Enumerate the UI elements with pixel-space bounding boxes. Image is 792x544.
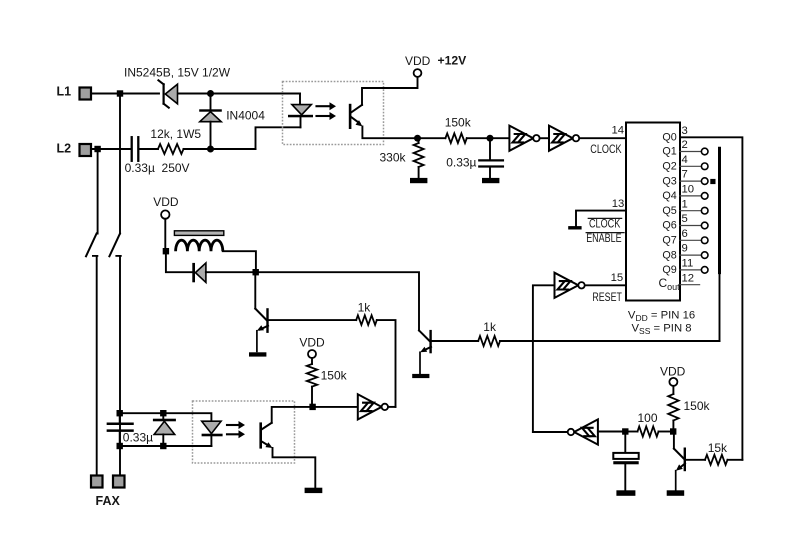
wire node G to U3E: [598, 431, 622, 433]
svg-text:Q8: Q8: [662, 249, 676, 261]
terminal VDD right: [669, 378, 677, 386]
wire LED U4 return: [123, 445, 211, 447]
terminal L1: [80, 88, 92, 100]
label R9 15k: [708, 441, 728, 455]
pin Q5 (pin 1) stub: [662, 198, 708, 217]
optocoupler U2 box: [283, 82, 384, 145]
node zener-IN4004 junction: [207, 90, 214, 97]
wire S2 to FAX terminal: [119, 256, 121, 476]
svg-text:0.33µ: 0.33µ: [123, 430, 153, 444]
node inductor-left junction: [163, 248, 169, 254]
svg-text:13: 13: [612, 198, 625, 210]
terminal L2: [80, 144, 92, 156]
pin Q8 (pin 9) stub: [662, 243, 708, 262]
svg-text:RESET: RESET: [592, 291, 622, 305]
inductor L1 coil: [176, 240, 223, 251]
wire R7 left: [629, 431, 638, 433]
svg-text:Q2: Q2: [662, 161, 676, 173]
pin Q9 (pin 11) stub: [662, 258, 708, 277]
svg-text:CLOCK: CLOCK: [590, 143, 622, 157]
svg-text:1: 1: [682, 198, 688, 210]
node B junction: [487, 135, 494, 142]
wire D3 to node C: [206, 271, 253, 273]
svg-text:2: 2: [682, 139, 688, 151]
wire Q0 output: [680, 137, 742, 460]
svg-text:Q0: Q0: [662, 132, 676, 144]
svg-text:CLOCK: CLOCK: [589, 217, 621, 231]
label L2: [57, 142, 72, 156]
label L1: [57, 85, 72, 99]
label C2 value: [446, 156, 476, 170]
terminal VDD top: [414, 69, 422, 77]
label R3 150k: [445, 115, 472, 129]
node E junction top: [117, 410, 123, 416]
LED U4: [202, 421, 223, 446]
optocoupler U4 box: [193, 401, 295, 463]
terminal VDD middle: [308, 350, 316, 358]
switch S1 blade: [86, 234, 97, 257]
svg-text:FAX: FAX: [96, 494, 121, 508]
wire R3 to inverter: [467, 137, 510, 139]
svg-text:1k: 1k: [358, 300, 372, 314]
resistor R5 1k: [478, 336, 500, 346]
label VDD right: [660, 365, 686, 379]
svg-text:5: 5: [682, 213, 688, 225]
svg-text:100: 100: [638, 411, 658, 425]
label C3 value: [123, 430, 153, 444]
svg-text:12k, 1W5: 12k, 1W5: [150, 127, 201, 141]
terminal FAX-1: [91, 476, 103, 488]
wire U3C to pin 15: [585, 284, 626, 286]
wire U2 emitter to node A: [362, 126, 445, 138]
wire R7 to node H: [659, 431, 671, 433]
svg-text:12: 12: [682, 272, 695, 284]
node L1 junction: [117, 90, 123, 96]
label pin 14: [612, 124, 625, 136]
label R2 330k: [380, 151, 407, 165]
svg-text:11: 11: [682, 258, 694, 270]
jumper mark at Q3: [710, 179, 715, 184]
label R5 1k: [483, 320, 497, 334]
ground tick pin 13: [568, 226, 581, 229]
label pin 13: [612, 198, 625, 210]
label ENABLE(bar): [586, 232, 624, 246]
diode D4 protection: [153, 413, 176, 446]
U2 coupling arrows: [317, 102, 337, 120]
node L2 junction: [94, 146, 100, 152]
svg-text:4: 4: [682, 154, 688, 166]
svg-text:10: 10: [682, 184, 695, 196]
resistor R1 12k 1W5: [158, 144, 184, 154]
svg-text:9: 9: [682, 243, 688, 255]
pin Q0 (pin 3) label: [662, 125, 687, 144]
label CLOCK(bar): [588, 217, 621, 231]
wire pin 13 to ground: [576, 211, 626, 227]
resistor R4 1k: [356, 315, 377, 325]
svg-text:15: 15: [611, 272, 624, 284]
wire L2 rail: [91, 148, 130, 150]
terminal VDD inductor: [161, 210, 169, 218]
pin Q1 (pin 2) stub: [662, 139, 708, 158]
wire U3A to U3B: [540, 137, 549, 139]
capacitor C2 0.33u: [479, 138, 503, 178]
label VDD inductor: [153, 195, 179, 209]
diode D3 freewheel: [192, 263, 206, 283]
ground below Q1: [249, 352, 266, 356]
ground below Q2: [412, 374, 429, 378]
LED U2 anode wire: [299, 94, 301, 105]
label CLOCK pin: [590, 143, 622, 157]
wire R1 to corner: [184, 148, 256, 150]
label RESET pin: [592, 291, 622, 305]
IC U1 CD4017 box: [626, 123, 680, 301]
wire U3D output: [389, 406, 396, 408]
node C junction: [253, 269, 259, 275]
label R1 value: [150, 127, 201, 141]
svg-text:Q6: Q6: [662, 220, 676, 232]
svg-text:1k: 1k: [483, 320, 497, 334]
node D4 bottom junction: [160, 443, 166, 449]
wire L1 drop to switch: [119, 94, 121, 234]
node F junction bottom: [117, 443, 123, 449]
ground below Q3: [667, 490, 685, 496]
pin Q4 (pin 10) stub: [662, 184, 708, 203]
wire L1 rail: [91, 93, 159, 95]
wire R5 to tap bus: [500, 340, 720, 342]
node H junction: [670, 428, 676, 434]
svg-text:14: 14: [612, 124, 625, 136]
inverter U3C reset: [555, 273, 585, 298]
svg-text:330k: 330k: [380, 151, 407, 165]
label VDD top: [405, 54, 431, 68]
resistor R8 150k: [668, 386, 678, 428]
svg-text:0.33µ 250V: 0.33µ 250V: [125, 161, 190, 175]
svg-text:VDD: VDD: [405, 54, 431, 68]
node A junction: [414, 135, 421, 142]
wire C1 to R1: [140, 148, 159, 150]
ground below C2: [482, 178, 499, 183]
wire zener to opto: [178, 93, 300, 95]
resistor R9 15k: [705, 455, 728, 465]
svg-text:IN5245B, 15V 1/2W: IN5245B, 15V 1/2W: [124, 66, 231, 80]
wire corner up to opto LED cathode: [256, 127, 301, 149]
pin Q2 (pin 4) stub: [662, 154, 708, 173]
label VDD = PIN 16: [628, 309, 695, 323]
svg-text:15k: 15k: [708, 441, 728, 455]
label C1 value: [125, 161, 190, 175]
phototransistor U2: [349, 104, 363, 129]
svg-text:Q3: Q3: [662, 175, 676, 187]
svg-text:VDD: VDD: [153, 195, 179, 209]
svg-text:IN4004: IN4004: [226, 108, 265, 122]
svg-text:150k: 150k: [321, 368, 348, 382]
svg-text:6: 6: [682, 228, 688, 240]
svg-text:Q7: Q7: [662, 235, 676, 247]
wire U3E input: [598, 431, 600, 433]
label R4 1k: [358, 300, 372, 314]
wire node C to Q2 base rail: [259, 272, 419, 330]
wire coil to corner: [223, 251, 256, 269]
resistor R3 150k: [445, 133, 466, 143]
label IN4004: [226, 108, 265, 122]
svg-text:7: 7: [682, 169, 688, 181]
label R8 150k: [684, 399, 711, 413]
svg-text:Q1: Q1: [662, 146, 676, 158]
resistor R2 330k: [414, 138, 424, 178]
label zener value: [124, 66, 231, 80]
wire L2 drop to switch: [97, 149, 99, 234]
LED U2: [288, 105, 313, 128]
capacitor C3 0.33u: [108, 416, 133, 442]
terminal FAX-2: [113, 476, 125, 488]
wire U3E output to reset line: [533, 431, 567, 433]
svg-text:L2: L2: [57, 142, 72, 156]
wire U2 collector to VDD tap: [362, 77, 418, 105]
label R6 150k: [321, 368, 348, 382]
svg-text:150k: 150k: [445, 115, 472, 129]
label VSS = PIN 8: [632, 323, 692, 337]
inverter U3B: [549, 126, 579, 151]
wire junction down to diode: [166, 251, 192, 272]
inverter U3E: [568, 419, 598, 444]
pin Q3 (pin 7) stub: [662, 169, 708, 188]
wire U4 collector to node D: [272, 407, 310, 423]
wire S1 to FAX terminal: [96, 256, 98, 476]
diode D2 IN4004: [199, 94, 222, 146]
tap bus bar: [500, 148, 720, 341]
label pin 15: [611, 272, 624, 284]
U4 coupling arrows: [227, 421, 245, 438]
node D junction: [309, 404, 315, 410]
svg-text:Q4: Q4: [662, 190, 676, 202]
pin Q6 (pin 5) stub: [662, 213, 708, 232]
svg-text:0.33µ: 0.33µ: [446, 156, 476, 170]
svg-text:ENABLE: ENABLE: [586, 232, 621, 246]
wire VDD to L1 node: [164, 219, 166, 248]
wire U3B to pin 14: [579, 137, 626, 139]
wire node C down to Q1 base: [254, 275, 256, 308]
phototransistor U4: [259, 422, 272, 448]
svg-text:3: 3: [682, 125, 688, 137]
pin Cout (pin 12) stub: [659, 272, 700, 291]
svg-text:+12V: +12V: [438, 53, 468, 67]
label FAX: [96, 494, 121, 508]
capacitor C4: [613, 435, 638, 491]
resistor R6 150k: [307, 358, 317, 404]
ground below C4: [616, 490, 635, 496]
svg-text:L1: L1: [57, 85, 72, 99]
transistor Q1: [255, 308, 356, 351]
ground below U4: [305, 488, 323, 493]
label R7 100: [638, 411, 658, 425]
wire FAX rail to LED U4: [123, 413, 211, 421]
svg-text:Q5: Q5: [662, 205, 676, 217]
switch S2 blade: [109, 234, 120, 257]
label +12V: [438, 53, 468, 67]
node D4 top junction: [160, 410, 166, 416]
zener D1 IN5245B: [158, 80, 177, 107]
pin Q7 (pin 6) stub: [662, 228, 708, 247]
inverter U3D: [358, 394, 388, 419]
inductor core: [174, 231, 223, 236]
transistor Q3: [674, 435, 705, 491]
svg-text:VDD: VDD: [660, 365, 686, 379]
ground below R2: [410, 178, 427, 183]
wire reset inverter input: [533, 285, 555, 432]
node G junction: [622, 428, 628, 434]
resistor R7 100: [638, 427, 659, 437]
node L2-IN4004 junction: [207, 146, 214, 153]
label VDD middle: [299, 336, 325, 350]
capacitor C1 0.33u 250V: [132, 137, 139, 161]
wire U4 emitter to ground: [273, 448, 316, 488]
wire R4 to inverter output: [377, 320, 396, 407]
svg-text:Q9: Q9: [662, 264, 676, 276]
inverter U3A: [509, 126, 539, 151]
svg-text:150k: 150k: [684, 399, 711, 413]
transistor Q2: [419, 330, 478, 374]
svg-text:VDD: VDD: [299, 336, 325, 350]
wire node D to inverter U3D: [316, 406, 358, 408]
wire R9 to Q0 line: [728, 459, 743, 461]
